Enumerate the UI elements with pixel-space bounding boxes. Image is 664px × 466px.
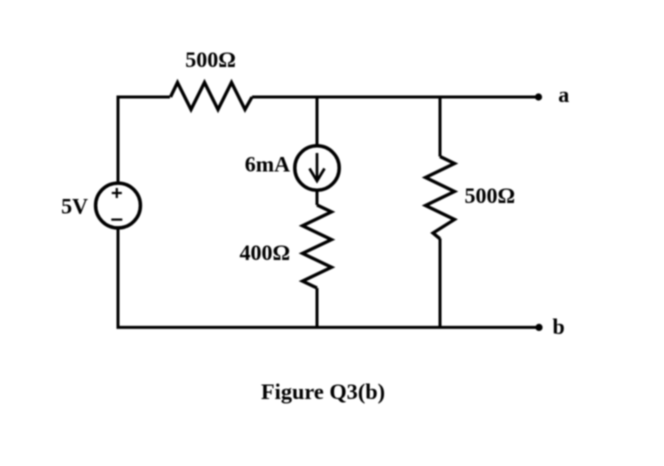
svg-text:b: b [553,314,565,339]
svg-text:400Ω: 400Ω [240,240,291,265]
svg-text:6mA: 6mA [245,152,290,177]
svg-text:500Ω: 500Ω [465,183,516,208]
svg-text:5V: 5V [61,194,88,219]
svg-text:500Ω: 500Ω [185,47,236,72]
svg-text:a: a [558,82,569,107]
svg-text:Figure Q3(b): Figure Q3(b) [261,379,385,404]
